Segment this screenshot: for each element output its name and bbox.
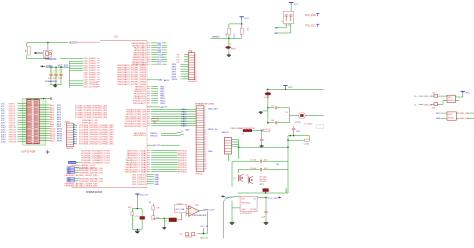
- vref box: [175, 204, 187, 213]
- svg-text:SPI10: SPI10: [172, 79, 179, 81]
- IC U1 body bottom edge: [72, 187, 148, 189]
- net labels G3: [160, 86, 166, 105]
- svg-text:VCC: VCC: [466, 92, 471, 94]
- svg-text:STM32F103C8: STM32F103C8: [86, 191, 103, 194]
- net label BOOT row: [147, 145, 180, 147]
- pins U1 left P4: [81, 150, 111, 165]
- resistor R13: [131, 209, 139, 230]
- svg-text:OSC32: OSC32: [69, 162, 75, 164]
- wire VCC B drop: [290, 5, 292, 12]
- wire op-amp out: [198, 210, 203, 212]
- wire sense vertical: [223, 197, 231, 239]
- ferrite FB6: [432, 103, 437, 110]
- svg-text:ADC_IN: ADC_IN: [200, 236, 208, 239]
- svg-text:VCC_3V: VCC_3V: [200, 226, 208, 228]
- ground LDO left: [231, 221, 233, 222]
- wire row1: [419, 96, 434, 98]
- pins U1 right G6 names: [133, 132, 147, 137]
- USB receptacle J4: [224, 138, 231, 155]
- wire RESET row: [211, 37, 242, 40]
- wire resistors down: [229, 35, 242, 39]
- wire down: [136, 196, 138, 208]
- op-amp U5: [189, 203, 200, 216]
- svg-text:C8 104: C8 104: [250, 168, 256, 170]
- svg-text:D-: D-: [415, 104, 418, 106]
- wire divider mid: [152, 210, 154, 216]
- svg-text:D+: D+: [415, 96, 419, 98]
- svg-text:GND: GND: [154, 184, 159, 186]
- svg-text:PA14/SWCLK: PA14/SWCLK: [133, 134, 147, 137]
- power port arrow VDD: [41, 65, 46, 67]
- svg-text:PWR: PWR: [231, 48, 236, 50]
- pins U1 left P3: [73, 125, 114, 146]
- pin labels J1 left red: [9, 104, 17, 144]
- power arrow VCC_5V: [221, 195, 234, 199]
- svg-text:VCC: VCC: [294, 4, 299, 6]
- svg-text:Q2: Q2: [246, 174, 250, 176]
- wire J1 top: [26, 97, 52, 100]
- pin labels G8 red: [177, 151, 187, 174]
- ground LED: [228, 54, 230, 55]
- wire R5 down: [261, 130, 263, 139]
- svg-text:NT1: NT1: [260, 184, 265, 186]
- ground J1: [46, 150, 50, 154]
- bead FB3: [169, 218, 177, 222]
- pins U1 right G5 names: [124, 108, 147, 128]
- power port VCC C: [283, 86, 293, 89]
- svg-text:2N7002: 2N7002: [185, 236, 193, 238]
- svg-text:R12: R12: [128, 207, 133, 209]
- wire loop bottom: [132, 229, 142, 230]
- regulator U4: [240, 196, 257, 215]
- ferrite FB5: [432, 93, 437, 98]
- resistor R6: [288, 136, 310, 146]
- filter box U3: [282, 11, 294, 26]
- svg-text:5V6: 5V6: [296, 131, 300, 133]
- svg-text:P3: P3: [177, 62, 180, 64]
- svg-text:104: 104: [271, 120, 274, 122]
- resistor R3: [240, 28, 247, 35]
- svg-text:BOOT0: BOOT0: [70, 41, 79, 44]
- wire LDO gnd left: [232, 201, 240, 222]
- net labels J1 right blue: [57, 105, 63, 142]
- wire ESD out: [455, 94, 462, 101]
- svg-text:RST: RST: [160, 107, 165, 109]
- connector J1 body: [27, 99, 40, 144]
- svg-text:PB15/MOSI2/TIM2_CH4: PB15/MOSI2/TIM2_CH4: [124, 126, 147, 128]
- wire caps right join: [289, 108, 291, 123]
- svg-text:U5A: U5A: [195, 203, 200, 206]
- resistor R series row: [152, 118, 159, 124]
- svg-text:VREF1/ADC_IN1: VREF1/ADC_IN1: [82, 121, 98, 124]
- svg-text:VBAT: VBAT: [157, 79, 163, 82]
- power port VCC D: [461, 91, 471, 94]
- net label VCC_3V branch: [200, 226, 208, 239]
- pins U1 left P4b rows: [71, 164, 97, 169]
- capacitor C1: [49, 67, 52, 85]
- wire bottom rail: [238, 192, 288, 193]
- bead FB4: [140, 209, 145, 230]
- svg-text:100: 100: [153, 122, 157, 124]
- svg-text:GPIO16: GPIO16: [9, 141, 17, 143]
- svg-text:AD15: AD15: [50, 139, 56, 142]
- pins U1 right G9 names: [132, 174, 147, 185]
- svg-text:DM2: DM2: [436, 118, 441, 120]
- wire J2 left rows: [184, 54, 189, 79]
- svg-text:R9 4K7: R9 4K7: [260, 181, 268, 183]
- svg-text:GND: GND: [208, 151, 213, 153]
- svg-text:BOOT1: BOOT1: [153, 145, 161, 147]
- region highlight caps: [50, 69, 64, 79]
- wire OSC_IN top: [27, 42, 100, 47]
- svg-text:GND_DET: GND_DET: [208, 108, 219, 110]
- wire SWD crossing: [161, 132, 184, 136]
- transistor Q2: [246, 174, 253, 184]
- pin numbers J3: [204, 107, 206, 170]
- svg-text:VCC5: VCC5: [295, 122, 301, 124]
- resistor R5: [252, 129, 270, 131]
- pins U1 left P1: [84, 58, 100, 88]
- svg-text:U2: U2: [115, 36, 119, 39]
- wire L1 row: [290, 115, 324, 117]
- svg-text:L2 600R: L2 600R: [304, 123, 312, 125]
- wire OSC_OUT bottom: [27, 55, 49, 59]
- svg-text:TP2_VCC: TP2_VCC: [305, 26, 316, 28]
- svg-text:GND: GND: [185, 130, 190, 132]
- IC U1 body right edge: [146, 41, 148, 188]
- wire bead stub: [265, 192, 267, 193]
- wire fuse down: [267, 89, 268, 124]
- net labels SWDIO SWCLK: [150, 133, 158, 137]
- svg-text:Y2 32k: Y2 32k: [284, 25, 290, 27]
- wire G5 to J3: [147, 109, 196, 126]
- pins U1 left P3b short rows: [82, 119, 98, 124]
- ground C14: [265, 221, 267, 222]
- wire vertical left B: [237, 170, 239, 173]
- svg-text:PA17: PA17: [182, 125, 188, 128]
- IC U1 body top edge: [100, 40, 147, 42]
- wire VDD feed: [46, 66, 70, 68]
- connector J2 notch: [189, 51, 192, 53]
- svg-text:VCC_3V3: VCC_3V3: [268, 198, 279, 200]
- wire feedback vertical: [197, 212, 207, 234]
- svg-text:PWM/OSC: PWM/OSC: [45, 59, 57, 61]
- svg-text:AREF_OUT: AREF_OUT: [203, 209, 215, 212]
- power port VCC B: [289, 3, 299, 6]
- wire OSC32 a: [274, 24, 286, 30]
- svg-text:DP2: DP2: [436, 113, 441, 115]
- connector J2 body: [189, 53, 195, 80]
- svg-text:NC/FB: NC/FB: [250, 209, 257, 211]
- svg-text:26: 26: [204, 168, 206, 170]
- svg-text:VSSA/VREF: VSSA/VREF: [45, 80, 58, 83]
- LED D1: [225, 46, 236, 50]
- net label below L1: [295, 122, 312, 125]
- wire LED branch: [229, 38, 232, 46]
- pin numbers J2: [195, 54, 197, 81]
- svg-text:VCC: VCC: [244, 18, 249, 20]
- pins U1 left P5 rows: [65, 167, 104, 188]
- svg-text:ESD2: ESD2: [448, 114, 453, 116]
- wire G1 stubs: [147, 43, 167, 64]
- pins U1 right G2 names: [117, 64, 147, 86]
- bead FB2: [263, 188, 269, 191]
- svg-text:PB11/SDA2/I2C1_SDA0: PB11/SDA2/I2C1_SDA0: [125, 171, 148, 174]
- wire row2: [419, 104, 434, 106]
- wire caps common: [50, 84, 62, 86]
- pins U1 left P2: [75, 104, 108, 119]
- svg-text:LMV358IDGKR: LMV358IDGKR: [193, 215, 207, 217]
- svg-text:510: 510: [246, 28, 248, 32]
- svg-text:IO16: IO16: [1, 141, 6, 143]
- wire mid horizontal: [238, 147, 288, 148]
- svg-text:ADC1: ADC1: [164, 79, 170, 82]
- svg-text:HDR-26: HDR-26: [196, 173, 204, 175]
- ground divider: [162, 218, 166, 229]
- capacitor C2: [54, 67, 57, 85]
- svg-text:SRV05: SRV05: [448, 117, 454, 119]
- svg-text:VCC_3.3A: VCC_3.3A: [175, 208, 185, 211]
- svg-text:TL431: TL431: [177, 204, 182, 206]
- svg-text:Q1: Q1: [233, 178, 237, 180]
- ground loop: [136, 230, 138, 231]
- pins U1 right G8 names: [125, 150, 148, 174]
- wire VDD pin stubs: [70, 61, 84, 85]
- net labels GND stack: [147, 174, 160, 185]
- svg-text:PC5/ADC15/TIM8_CH1/FSMC_A25: PC5/ADC15/TIM8_CH1/FSMC_A25: [75, 116, 108, 119]
- ground C12: [261, 145, 263, 146]
- resistor R10: [152, 204, 161, 210]
- svg-text:VSS_4/VDDIO4: VSS_4/VDDIO4: [132, 184, 147, 186]
- svg-text:10u: 10u: [271, 105, 274, 107]
- test point labels right: [305, 13, 319, 27]
- wire USB data rows: [232, 140, 239, 147]
- USB shield bar: [243, 129, 252, 132]
- svg-text:EXPANSION CONN: EXPANSION CONN: [195, 103, 214, 106]
- wire divider out: [153, 218, 169, 219]
- svg-text:VCC: VCC: [288, 87, 293, 89]
- svg-text:PB11/SDA2/T7: PB11/SDA2/T7: [133, 102, 147, 105]
- wire crystal top drop: [47, 43, 49, 51]
- svg-text:TP1_GND: TP1_GND: [305, 15, 316, 17]
- ferrite L1: [299, 113, 305, 118]
- wire G8 to J3 lower: [147, 151, 177, 172]
- svg-text:D2: D2: [229, 43, 232, 45]
- net labels J1 left blue: [1, 104, 6, 144]
- svg-text:1M: 1M: [26, 49, 28, 52]
- wire to MCU OSC pin: [60, 58, 83, 60]
- svg-text:11: 11: [195, 79, 197, 81]
- wire FB3 out: [177, 213, 182, 220]
- wire LDO in: [233, 195, 240, 197]
- net label row B: [147, 107, 167, 109]
- pins U1 right G1 names: [132, 42, 148, 66]
- wire USB vbus vertical: [238, 140, 240, 159]
- wire OSC32 b: [274, 24, 291, 35]
- svg-text:VIN: VIN: [241, 199, 245, 201]
- svg-text:VDD_12/VSS12: VDD_12/VSS12: [84, 87, 99, 89]
- frame corner: [317, 124, 324, 129]
- svg-text:VBUS_5V: VBUS_5V: [208, 129, 218, 131]
- wire loop top: [132, 208, 142, 209]
- power port VCC A: [240, 17, 250, 20]
- wire USB shell vertical: [227, 154, 229, 161]
- svg-text:VCC_5V: VCC_5V: [140, 195, 149, 197]
- svg-text:DSP-28 HDR: DSP-28 HDR: [22, 152, 36, 154]
- wire VBUS long vertical: [287, 136, 288, 193]
- svg-text:ESD: ESD: [448, 97, 452, 99]
- svg-text:EP15: EP15: [57, 140, 63, 142]
- resistor R2: [226, 28, 231, 37]
- svg-text:5V: 5V: [285, 112, 288, 114]
- value labels 100nF: [48, 78, 63, 80]
- transistor Q1: [233, 174, 243, 182]
- ESD array U6: [447, 95, 455, 102]
- capacitor C12: [260, 140, 263, 145]
- wire VSSA: [55, 84, 56, 85]
- connector J3 body: [196, 106, 204, 172]
- net labels G5: [182, 108, 188, 128]
- wire LDO out: [257, 197, 267, 198]
- capacitor C11: [268, 120, 290, 124]
- svg-text:HDR10: HDR10: [67, 148, 74, 150]
- wire cmp row: [288, 135, 309, 136]
- transistor pair glyphs: [180, 233, 195, 239]
- connector J1 highlight: [23, 99, 46, 146]
- capacitor C10: [268, 105, 290, 109]
- svg-text:V3: V3: [149, 202, 152, 204]
- svg-text:SWCLK: SWCLK: [150, 136, 158, 138]
- svg-text:FUSE: FUSE: [264, 97, 270, 99]
- svg-text:PA10/USART1_RX/TIM1_CH3N/X: PA10/USART1_RX/TIM1_CH3N/X: [117, 83, 147, 86]
- wire op-amp inputs: [186, 208, 189, 216]
- svg-text:FB: FB: [432, 108, 435, 110]
- wire LED to gnd: [228, 49, 230, 54]
- wire row4: [436, 118, 474, 120]
- svg-text:PD1: PD1: [157, 64, 162, 66]
- ground VSSA: [54, 85, 56, 86]
- net label row ADC: [147, 79, 170, 82]
- wire J1 left rows: [17, 104, 26, 142]
- svg-text:PE5/FSMC_A5/TIM9_CH1/SPI_NSS: PE5/FSMC_A5/TIM9_CH1/SPI_NSS: [65, 174, 98, 177]
- wire out cap: [265, 198, 267, 211]
- no-ERC arrow at crystal: [34, 52, 43, 54]
- svg-text:GNDA: GNDA: [46, 65, 53, 68]
- svg-text:PC8/TIM8_CH0/SDIO_D0/FSMC_NE0: PC8/TIM8_CH0/SDIO_D0/FSMC_NE0: [79, 144, 114, 146]
- wire J1 right rows: [39, 105, 49, 140]
- resistor R11: [152, 216, 161, 220]
- svg-text:CC1K: CC1K: [304, 143, 310, 145]
- wire vertical left A: [231, 161, 233, 187]
- fuse F1 bead: [264, 92, 271, 99]
- svg-text:GD: GD: [276, 164, 280, 166]
- svg-text:VBUS: VBUS: [286, 187, 288, 193]
- wire power top rail: [266, 88, 324, 90]
- net labels G1: [157, 43, 163, 66]
- svg-text:PB12: PB12: [160, 103, 166, 105]
- wire row cap B: [238, 168, 288, 171]
- net labels J3 right: [208, 108, 219, 153]
- svg-text:4.7K: 4.7K: [135, 216, 140, 218]
- svg-text:10K: 10K: [156, 208, 160, 210]
- crystal Y1: [43, 50, 52, 60]
- ESD array U7: [447, 112, 456, 120]
- capacitor C3: [59, 67, 62, 85]
- wire row2b: [437, 101, 447, 105]
- wire G3 stubs: [147, 86, 158, 103]
- pin labels J1 right red: [50, 104, 56, 142]
- svg-text:PF8: PF8: [74, 144, 77, 146]
- wire row3: [436, 113, 474, 115]
- svg-text:Q3: Q3: [180, 233, 184, 235]
- svg-text:PE9/FSMC_A9/TIM9_CH1/SPI_NSS: PE9/FSMC_A9/TIM9_CH1/SPI_NSS: [65, 185, 98, 188]
- capacitor C14: [262, 211, 268, 221]
- wire VCC split: [229, 19, 243, 28]
- net label VCC_3V3 out: [268, 196, 281, 200]
- svg-text:PC13: PC13: [234, 33, 236, 39]
- svg-text:L3: L3: [165, 220, 168, 222]
- resistor labels cluster: [260, 176, 268, 186]
- resistor R1 (1M feedback): [26, 46, 31, 55]
- ground power entry: [259, 111, 268, 114]
- svg-text:XC6206-3V3: XC6206-3V3: [240, 213, 252, 215]
- svg-text:C7 104: C7 104: [250, 159, 256, 161]
- svg-text:RESET: RESET: [212, 37, 220, 39]
- net label OSC row: [68, 161, 81, 164]
- connector H2 body: [67, 123, 74, 147]
- svg-text:VO: VO: [253, 199, 256, 201]
- svg-text:VSS/GND: VSS/GND: [241, 203, 251, 205]
- labels J2 left: [172, 54, 185, 81]
- capacitor C13: [292, 126, 301, 136]
- wire VDD bus vertical: [69, 61, 71, 87]
- svg-text:GND: GND: [241, 209, 246, 211]
- svg-text:1uF: 1uF: [262, 216, 266, 218]
- pins U1 right G3 names: [133, 85, 147, 105]
- svg-text:USBLC6: USBLC6: [448, 100, 455, 102]
- svg-text:PB19/SCK: PB19/SCK: [177, 172, 187, 174]
- svg-text:USB_ID: USB_ID: [221, 132, 229, 134]
- svg-text:J4: J4: [242, 133, 245, 135]
- power port VCC_5V2: [135, 194, 148, 197]
- wire row1b: [437, 95, 447, 97]
- wire row cap A: [232, 159, 288, 165]
